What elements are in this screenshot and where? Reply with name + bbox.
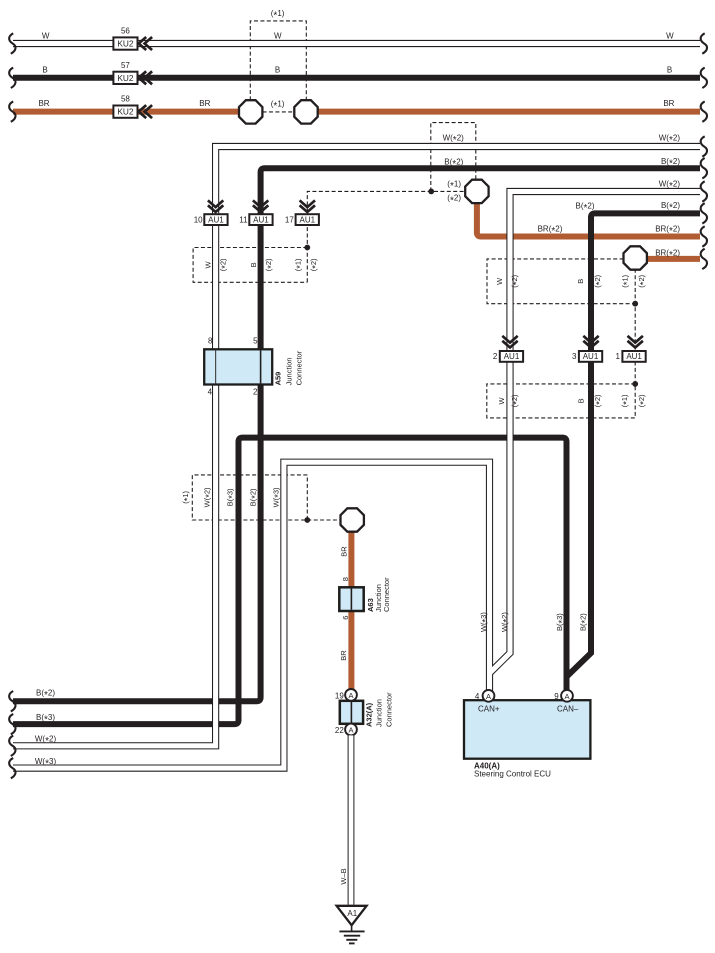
svg-text:8: 8 bbox=[341, 577, 350, 581]
wire-break squiggles left edge bbox=[9, 33, 15, 778]
svg-text:B: B bbox=[275, 65, 280, 74]
svg-text:B: B bbox=[249, 262, 258, 267]
svg-text:A: A bbox=[348, 726, 353, 735]
connector AU1 pin 3 bbox=[579, 336, 602, 362]
svg-text:(*2): (*2) bbox=[593, 394, 605, 407]
svg-text:(*1): (*1) bbox=[294, 258, 306, 271]
connector KU2 57 bbox=[113, 71, 152, 84]
junction connector A63 bbox=[339, 587, 363, 611]
connector AU1 pin 17 bbox=[296, 200, 319, 225]
junction connector A32(A) bbox=[340, 701, 363, 724]
octagon connector BR(*2) right bbox=[624, 246, 647, 269]
svg-text:57: 57 bbox=[121, 61, 130, 70]
svg-text:A1: A1 bbox=[347, 909, 357, 918]
svg-text:(*1): (*1) bbox=[447, 179, 461, 192]
svg-text:9: 9 bbox=[554, 692, 559, 701]
svg-text:(*1): (*1) bbox=[271, 9, 285, 22]
svg-text:3: 3 bbox=[572, 352, 577, 361]
svg-text:W: W bbox=[666, 31, 674, 40]
svg-text:(*1): (*1) bbox=[181, 490, 193, 503]
svg-text:Connector: Connector bbox=[382, 577, 391, 612]
svg-text:19: 19 bbox=[335, 691, 344, 700]
connector KU2 56 bbox=[113, 37, 152, 50]
ground symbol A1 bbox=[337, 906, 367, 944]
wire W main outline bbox=[13, 40, 700, 47]
svg-text:BR: BR bbox=[38, 99, 49, 108]
svg-text:W–B: W–B bbox=[339, 868, 348, 884]
connector AU1 pin 1 bbox=[622, 336, 645, 362]
wire BR main left segment bbox=[13, 109, 240, 115]
octagon connector BR (*1) right bbox=[294, 100, 317, 123]
wire BR from mid octagon to A63 bbox=[348, 532, 354, 588]
svg-text:(*2): (*2) bbox=[637, 274, 649, 287]
svg-text:W: W bbox=[497, 396, 506, 404]
node dot right dashed box lower bbox=[632, 381, 638, 387]
svg-text:W: W bbox=[203, 260, 212, 268]
svg-text:(*1): (*1) bbox=[620, 394, 632, 407]
svg-text:B: B bbox=[667, 65, 672, 74]
svg-text:11: 11 bbox=[239, 216, 248, 225]
wire B(*3): bottom row, up, junction row, down to A40 pin 9 bbox=[13, 438, 567, 724]
svg-text:KU2: KU2 bbox=[117, 39, 134, 49]
node dot at (*1) dashed tee bbox=[428, 189, 434, 195]
svg-text:4: 4 bbox=[208, 388, 213, 397]
wire W(*2) left core bbox=[13, 147, 700, 746]
svg-text:Connector: Connector bbox=[385, 692, 394, 727]
dashed wire from AU1 17 to octagon (*1) bbox=[307, 191, 465, 282]
svg-text:5: 5 bbox=[253, 336, 258, 345]
dashed option box (*1) top bbox=[250, 21, 306, 101]
svg-text:58: 58 bbox=[121, 95, 130, 104]
svg-text:4: 4 bbox=[475, 692, 480, 701]
svg-text:AU1: AU1 bbox=[300, 215, 316, 224]
octagon connector BR (*1) left bbox=[239, 100, 262, 123]
wire B(*2) right: from right edge down, diagonal into pin 9 bbox=[567, 213, 700, 676]
dashed link to octagon mid bbox=[307, 519, 340, 521]
dashed label box right upper bbox=[487, 259, 635, 304]
wire BR main right segment bbox=[317, 109, 700, 115]
wire W(*2) left outline bbox=[13, 147, 700, 746]
dashed label box right lower bbox=[487, 384, 635, 418]
dashed label box left lower bbox=[192, 475, 307, 520]
wire W-B from A32 to ground bbox=[348, 735, 355, 904]
svg-text:(*2): (*2) bbox=[264, 258, 276, 271]
connector AU1 pin 10 bbox=[204, 200, 227, 225]
svg-text:W: W bbox=[495, 277, 504, 285]
wire W(*2) right core bbox=[490, 192, 700, 674]
dashed option box around W(*2)/B(*2) rows bbox=[431, 123, 476, 192]
svg-text:A: A bbox=[564, 692, 569, 701]
svg-text:(*2): (*2) bbox=[637, 394, 649, 407]
svg-text:AU1: AU1 bbox=[626, 352, 642, 361]
pin 9 circle A bbox=[561, 690, 573, 702]
svg-text:Steering Control ECU: Steering Control ECU bbox=[474, 770, 551, 779]
ECU box A40(A) bbox=[464, 700, 590, 759]
svg-text:KU2: KU2 bbox=[117, 107, 134, 117]
svg-text:(*2): (*2) bbox=[593, 274, 605, 287]
wire BR from A63 to A32 pin 19 bbox=[348, 611, 354, 690]
svg-text:(*2): (*2) bbox=[447, 194, 461, 207]
svg-text:CAN–: CAN– bbox=[557, 705, 579, 714]
svg-text:22: 22 bbox=[335, 726, 344, 735]
svg-text:CAN+: CAN+ bbox=[478, 705, 500, 714]
wire B main bbox=[13, 75, 700, 81]
svg-text:Connector: Connector bbox=[295, 350, 304, 385]
wire W(*3) core bbox=[13, 462, 490, 768]
connector KU2 58 bbox=[113, 105, 152, 118]
octagon connector (*1)/(*2) upper bbox=[465, 180, 488, 203]
svg-text:BR: BR bbox=[663, 99, 674, 108]
svg-text:Junction: Junction bbox=[375, 699, 384, 727]
svg-text:W: W bbox=[42, 31, 50, 40]
node dot below AU1 17 bbox=[304, 245, 310, 251]
dashed label box left upper bbox=[193, 248, 307, 283]
node dot lower-left dashed box bbox=[304, 517, 310, 523]
octagon connector mid (*1) bbox=[341, 508, 364, 531]
svg-text:2: 2 bbox=[253, 388, 258, 397]
svg-text:B(*3): B(*3) bbox=[226, 488, 238, 506]
svg-text:1: 1 bbox=[615, 352, 620, 361]
svg-text:KU2: KU2 bbox=[117, 73, 134, 83]
svg-text:AU1: AU1 bbox=[253, 215, 269, 224]
rotated labels bbox=[181, 258, 649, 885]
svg-text:8: 8 bbox=[208, 336, 213, 345]
svg-text:BR: BR bbox=[199, 99, 210, 108]
wire W(*3) outline bbox=[13, 462, 490, 768]
svg-text:A: A bbox=[348, 691, 353, 700]
dashed wire from octagon to AU1 1 bbox=[634, 269, 636, 384]
pin 22 circle A bbox=[345, 724, 357, 736]
svg-text:(*1): (*1) bbox=[271, 99, 285, 112]
svg-text:BR: BR bbox=[339, 546, 348, 557]
svg-text:(*2): (*2) bbox=[309, 258, 321, 271]
svg-text:AU1: AU1 bbox=[583, 352, 599, 361]
svg-text:2: 2 bbox=[493, 352, 498, 361]
wire W main core bbox=[13, 41, 700, 46]
svg-text:(*2): (*2) bbox=[510, 394, 522, 407]
svg-text:AU1: AU1 bbox=[504, 352, 520, 361]
connector AU1 pin 2 bbox=[500, 336, 523, 362]
svg-text:B: B bbox=[576, 279, 585, 284]
svg-text:A: A bbox=[486, 692, 491, 701]
svg-text:AU1: AU1 bbox=[208, 215, 224, 224]
svg-text:W: W bbox=[274, 31, 282, 40]
wire-break squiggles right edge bbox=[701, 33, 707, 269]
wire B(*2) left: bottom row, up through A59/AU1-11, to right edge bbox=[13, 168, 700, 701]
svg-text:B: B bbox=[42, 65, 47, 74]
junction dots on dashed wires bbox=[304, 189, 638, 523]
node dot right dashed box upper bbox=[632, 301, 638, 307]
svg-text:56: 56 bbox=[121, 27, 130, 36]
connector AU1 pin 11 bbox=[249, 200, 272, 225]
svg-text:A32(A): A32(A) bbox=[365, 702, 374, 727]
pin 19 circle A bbox=[345, 689, 357, 701]
dashed link between BR octagons bbox=[263, 111, 294, 113]
wire W(*2) right outline bbox=[490, 192, 700, 674]
wire BR(*2) row 2 stub bbox=[646, 256, 700, 262]
svg-text:(*2): (*2) bbox=[510, 274, 522, 287]
svg-text:Junction: Junction bbox=[285, 357, 294, 385]
svg-text:B: B bbox=[577, 398, 586, 403]
wire BR(*2) row from octagon bbox=[477, 203, 700, 237]
svg-text:(*2): (*2) bbox=[219, 258, 231, 271]
junction connector A59 bbox=[204, 349, 272, 384]
svg-text:17: 17 bbox=[285, 216, 294, 225]
svg-text:(*1): (*1) bbox=[621, 274, 633, 287]
svg-text:BR: BR bbox=[339, 650, 348, 661]
svg-text:6: 6 bbox=[341, 616, 350, 620]
svg-text:A59: A59 bbox=[274, 372, 283, 386]
svg-text:10: 10 bbox=[194, 216, 203, 225]
pin 4 circle A bbox=[483, 690, 495, 702]
